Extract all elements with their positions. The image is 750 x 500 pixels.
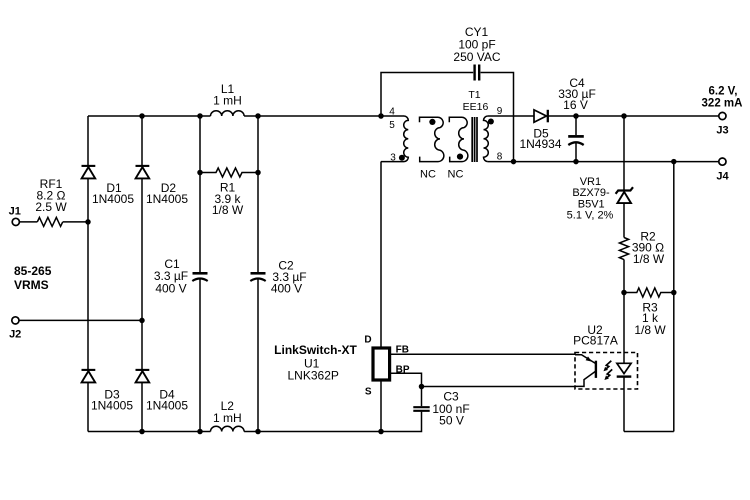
svg-text:1N4005: 1N4005 [146, 192, 188, 206]
svg-text:5: 5 [389, 120, 395, 131]
node right rail top junction [671, 159, 677, 165]
wire bottom rail left (88,431.5)-(209.5,431.5) [88, 431, 211, 433]
node C4 top [573, 113, 579, 119]
wire BP node to opto emitter [422, 386, 576, 388]
svg-text:VR1: VR1 [580, 176, 601, 188]
resistor R2 390 ohm [619, 230, 664, 267]
wire CY1 right branch down to secondary return [481, 73, 514, 162]
node x=258 bottom rail junction [255, 429, 261, 435]
node x=258 R1 junction [255, 170, 261, 176]
svg-text:J1: J1 [9, 206, 21, 218]
wire LED cathode to right rail bottom [624, 431, 674, 433]
wire bottom rail right (245.5,431.5)-(421.5,431.5) up to C3 [244, 412, 421, 432]
wire top DC bus rail left (88,116)-(209.5,116) [88, 115, 211, 117]
wire VR1 anode to R2 [623, 203, 625, 237]
wire vertical rail x=258 top [257, 116, 259, 272]
terminal J1 [9, 206, 21, 226]
wire x=142 below D4 [141, 382, 143, 431]
svg-text:NC: NC [420, 168, 436, 180]
svg-text:16 V: 16 V [563, 98, 588, 112]
wire x=88 below D3 to bottom rail [87, 382, 89, 431]
inductor L2 [211, 399, 245, 432]
svg-text:1N4005: 1N4005 [146, 399, 188, 413]
svg-text:3: 3 [390, 153, 396, 164]
svg-text:EE16: EE16 [463, 101, 489, 113]
svg-text:NC: NC [448, 168, 464, 180]
svg-text:1N4005: 1N4005 [92, 192, 134, 206]
svg-text:2.5 W: 2.5 W [35, 200, 67, 214]
svg-text:1 mH: 1 mH [213, 411, 242, 425]
svg-text:1/8 W: 1/8 W [633, 252, 665, 266]
wire BP node down to C3 [421, 387, 423, 407]
capacitor C2 3.3uF 400V [250, 258, 306, 295]
transformer T1 core [463, 89, 489, 162]
svg-text:LinkSwitch-XT: LinkSwitch-XT [274, 343, 357, 357]
wire J1 to RF1 [19, 221, 37, 223]
svg-text:B5V1: B5V1 [578, 198, 605, 210]
diode D5 1N4934 [519, 110, 561, 151]
wire x=88 between D1 and D3 [87, 178, 89, 369]
terminal J4 [716, 158, 729, 182]
transformer T1 NC winding 3 [448, 117, 468, 180]
resistor R1 3.9k [200, 168, 258, 217]
node C4 bottom [573, 159, 579, 165]
wire BP from U1 to C3 node [390, 373, 421, 386]
node R2/R3/LED junction [621, 290, 627, 296]
wire RF1 to node (88,221.5) [63, 221, 88, 223]
node S pin bottom junction [378, 429, 384, 435]
svg-text:J2: J2 [9, 328, 21, 340]
inductor L1 [211, 82, 245, 116]
node VR1 top [621, 113, 627, 119]
svg-text:T1: T1 [468, 89, 480, 101]
svg-text:PC817A: PC817A [573, 333, 618, 347]
node x=200 R1 junction [197, 170, 203, 176]
wire FB from U1 to opto collector [390, 353, 575, 355]
svg-text:FB: FB [396, 345, 409, 356]
node CY1 at secondary return rail [511, 159, 517, 165]
transformer T1 secondary winding pins 9-8 [484, 106, 503, 162]
svg-text:VRMS: VRMS [14, 278, 49, 292]
optocoupler U2 PC817A dashed box [573, 323, 637, 389]
node x=142 bottom rail junction [139, 429, 145, 435]
wire x=258 below C2 [257, 279, 259, 431]
capacitor CY1 100pF 250VAC [453, 25, 500, 81]
opto phototransistor of U2 [575, 355, 596, 387]
svg-text:1N4934: 1N4934 [519, 137, 561, 151]
IC U1 LNK362P body [274, 335, 410, 398]
wire left bridge rail x=88 top [87, 116, 89, 165]
zener diode VR1 BZX79-B5V1 [567, 176, 633, 222]
resistor R3 1k [624, 288, 674, 337]
svg-text:1 mH: 1 mH [213, 94, 242, 108]
diode D1 1N4005 [82, 166, 135, 206]
wire top DC bus rail right (245.5,116)-(404,116) [244, 115, 404, 117]
node J1-D1D3 junction [85, 219, 91, 225]
svg-text:1/8 W: 1/8 W [634, 323, 666, 337]
node x=200 bottom rail junction [197, 429, 203, 435]
capacitor C3 100nF 50V [413, 390, 469, 428]
svg-text:50 V: 50 V [439, 413, 464, 427]
svg-text:400 V: 400 V [155, 281, 186, 295]
wire D5 cathode to J3 [548, 115, 719, 117]
wire LED branch down from R2/R3 node [623, 293, 625, 364]
wire secondary pin9 rail to D5 [488, 115, 534, 117]
svg-text:S: S [365, 386, 372, 397]
wire CY1 left branch to primary bus node [381, 73, 473, 117]
wire primary pin3 down to U1 drain [380, 162, 382, 349]
node R3 right junction [671, 290, 677, 296]
wire U1 source pin down to bottom rail [380, 380, 382, 432]
capacitor C1 3.3uF 400V [154, 257, 208, 295]
svg-text:4: 4 [389, 107, 395, 118]
svg-text:LNK362P: LNK362P [288, 369, 339, 383]
svg-text:1N4005: 1N4005 [91, 399, 133, 413]
svg-text:BP: BP [396, 365, 410, 376]
wire R2 to R3 node [623, 260, 625, 293]
svg-text:5.1 V, 2%: 5.1 V, 2% [567, 210, 614, 222]
svg-text:6.2 V,: 6.2 V, [709, 85, 738, 97]
diode D4 1N4005 [136, 370, 189, 413]
wire VR1 branch from +V node down [623, 116, 625, 190]
terminal J3 [716, 112, 728, 136]
node BP/C3/opto junction [419, 384, 425, 390]
node J2 junction on x=142 [139, 318, 145, 324]
capacitor C4 330uF 16V [558, 76, 596, 162]
transformer T1 primary winding pins 4/5-3 [381, 107, 408, 164]
wire vertical rail x=200 top [199, 116, 201, 272]
wire secondary return rail pin8 to J4 [488, 161, 719, 163]
diode D3 1N4005 [82, 370, 134, 413]
svg-text:J3: J3 [716, 125, 728, 137]
opto LED of U2 [617, 363, 632, 431]
wire x=142 between D2 and D4 [141, 178, 143, 369]
svg-text:1/8 W: 1/8 W [212, 203, 244, 217]
svg-text:250 VAC: 250 VAC [453, 50, 500, 64]
opto light arrows [604, 361, 613, 380]
text output rating 6.2V 322mA [702, 85, 743, 109]
text 85-265 VRMS [14, 264, 52, 292]
node x=142 top rail junction [139, 113, 145, 119]
diode D2 1N4005 [136, 166, 189, 206]
wire x=142 rail top [141, 116, 143, 165]
svg-text:400 V: 400 V [271, 281, 302, 295]
svg-text:322 mA: 322 mA [702, 97, 743, 109]
resistor RF1 8.2 ohm [35, 177, 67, 227]
transformer T1 NC winding 2 [420, 117, 444, 180]
wire right rail x=673.8 down [673, 162, 675, 432]
svg-text:85-265: 85-265 [14, 264, 52, 278]
svg-text:J4: J4 [716, 170, 729, 182]
svg-text:D: D [364, 335, 371, 346]
svg-text:8: 8 [497, 151, 503, 162]
node CY1 at primary bus [378, 113, 384, 119]
wire x=200 below C1 [199, 279, 201, 431]
terminal J2 [9, 317, 21, 341]
node x=258 top rail junction [255, 113, 261, 119]
node x=200 top rail junction [197, 113, 203, 119]
wire J2 to D2/D4 rail [19, 319, 142, 321]
